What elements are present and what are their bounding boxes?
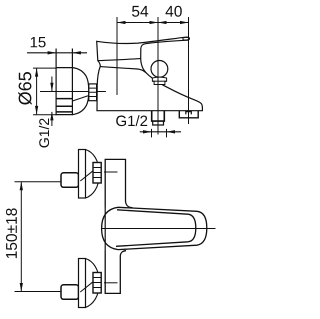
lower dome (86, 259, 100, 308)
front body column upper (105, 159, 132, 207)
front body column lower (105, 251, 126, 294)
lower eccentric diagonal (80, 282, 93, 292)
lower wall pipe (61, 285, 79, 300)
front body left edge through capsule (104, 208, 106, 251)
diverter knob circle (151, 61, 168, 78)
150±18 extension lines (15, 182, 63, 292)
extension line x=117 (handle axis) (116, 17, 118, 95)
escutcheon side rect (56, 49, 72, 115)
extension line x=158 overdraw (157, 58, 159, 135)
side body outline (97, 37, 203, 111)
lever end cap ellipse (183, 37, 189, 40)
dimension line 15 (27, 52, 87, 54)
150±18 dimension line (20, 182, 22, 292)
escutcheon inner pipe lines (56, 99, 72, 112)
dome diagonal (72, 96, 88, 102)
shower outlet connector (152, 111, 165, 121)
dimension text 40 (166, 6, 182, 17)
extension line x=158 (knob axis) (157, 17, 159, 135)
upper escutcheon bar (79, 150, 86, 199)
knob collar (152, 77, 166, 84)
escutcheon dome side (72, 68, 88, 115)
handle base bottom line (98, 59, 141, 61)
handle centerline (101, 228, 216, 230)
dimension text 15 (31, 37, 46, 47)
G1/2 side text (39, 119, 49, 148)
arrowheads 54/40 (117, 21, 189, 24)
spout outlet connector (179, 111, 198, 118)
lower nut threads (93, 273, 101, 294)
G1/2 bottom dimension (140, 131, 181, 133)
G1/2 bottom text (116, 115, 147, 126)
upper wall pipe (61, 173, 79, 188)
150±18 text (6, 208, 17, 258)
dimension text 54 (132, 6, 148, 17)
centerline side view (40, 91, 106, 93)
body shoulder line (100, 67, 146, 73)
handle capsule outer (102, 207, 207, 249)
upper nut threads (93, 163, 101, 184)
lower inlet centerline (104, 282, 118, 284)
upper eccentric diagonal (80, 171, 93, 181)
upper inlet centerline (104, 171, 118, 173)
Ø65 text (18, 72, 31, 105)
extension line x=188.5 (spout tip) (188, 17, 190, 124)
Ø65 dimension (36, 68, 38, 114)
lower escutcheon bar (79, 259, 86, 308)
handle capsule inner (116, 210, 196, 247)
G1/2 side dimension (51, 77, 53, 127)
upper dome (86, 150, 100, 199)
nut side threads (89, 84, 97, 101)
dimension line 54/40 (117, 22, 189, 24)
